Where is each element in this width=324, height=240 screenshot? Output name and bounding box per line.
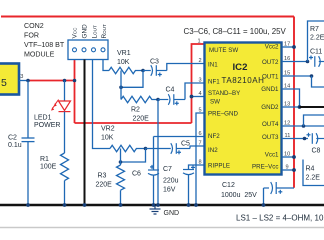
- wire R7 branch up and right: [308, 21, 324, 62]
- svg-text:100E: 100E: [40, 164, 57, 171]
- svg-text:C6: C6: [132, 171, 141, 178]
- svg-text:PRE–Vcc: PRE–Vcc: [252, 164, 278, 171]
- wire red connector Vcc pin down: [74, 60, 76, 81]
- wire pin 14 GND1 down: [282, 89, 300, 107]
- wire IC1 pin3 stub: [19, 80, 29, 82]
- wire R4 leg down right: [303, 160, 324, 186]
- svg-text:C12: C12: [222, 182, 235, 189]
- svg-text:5: 5: [1, 77, 7, 89]
- capacitor C12: [264, 182, 295, 194]
- node bus R2 drop: [156, 203, 160, 207]
- node bus GND wire: [83, 203, 87, 207]
- wire red from node A to connector Vcc column: [28, 81, 75, 124]
- wire C2 to ground bus: [27, 142, 29, 205]
- wire pin 17 Vcc2 to red rail: [282, 46, 294, 48]
- svg-text:CON2: CON2: [24, 22, 44, 30]
- svg-text:220E: 220E: [133, 116, 150, 123]
- ground bus: [0, 204, 324, 206]
- capacitor C11: [309, 56, 324, 67]
- svg-text:IC2: IC2: [233, 62, 248, 73]
- capacitor C3: [143, 65, 167, 76]
- svg-text:6: 6: [199, 131, 202, 137]
- svg-text:LOUT: LOUT: [92, 25, 99, 38]
- wire R2 node to ground bus: [157, 100, 159, 206]
- LED LED1 symbol: [51, 100, 71, 112]
- svg-text:Vcc2: Vcc2: [265, 44, 279, 51]
- node VR2 wiper: [119, 160, 123, 164]
- svg-text:C2: C2: [8, 135, 17, 142]
- wire C6 vertical top: [153, 137, 155, 171]
- svg-text:C11: C11: [310, 49, 322, 56]
- wire VR2 right end to wiper: [121, 149, 146, 163]
- wire C7 to ground bus: [188, 174, 190, 205]
- svg-text:R3: R3: [98, 173, 107, 180]
- wire C5 to pin 7 IN2: [190, 146, 205, 149]
- svg-text:NF1: NF1: [208, 79, 220, 86]
- wire pin 13 GND2: [282, 106, 300, 108]
- ground symbol: [150, 205, 161, 214]
- wire R1 to ground bus: [64, 181, 66, 205]
- svg-text:7: 7: [199, 141, 202, 147]
- wire C12 left to ground bus: [263, 188, 265, 205]
- svg-text:0.1u: 0.1u: [8, 142, 22, 149]
- svg-text:1000u 25V: 1000u 25V: [221, 192, 257, 199]
- svg-text:GND1: GND1: [261, 86, 279, 93]
- node PRE-Vcc on red: [292, 168, 296, 172]
- node bus C7: [187, 203, 191, 207]
- wire LED branch upper: [64, 81, 66, 102]
- resistor R3: [117, 165, 125, 190]
- svg-text:IN2: IN2: [208, 147, 218, 154]
- svg-text:C5: C5: [181, 141, 190, 148]
- svg-text:VTF–108 BT: VTF–108 BT: [24, 41, 65, 49]
- wire C6 to ground bus: [153, 175, 155, 206]
- wire pin 15 OUT1: [282, 75, 312, 77]
- node bus C2: [26, 203, 30, 207]
- capacitor C6: [148, 165, 159, 175]
- node R2 right / C4: [156, 98, 160, 102]
- connector CON2 box: [68, 40, 108, 60]
- svg-text:3: 3: [199, 78, 202, 84]
- svg-text:2.2E: 2.2E: [306, 175, 321, 182]
- svg-text:C3: C3: [150, 59, 159, 66]
- svg-text:VR2: VR2: [101, 126, 115, 133]
- wire OUT1 down right to LS: [312, 76, 324, 87]
- svg-text:TA8210AH: TA8210AH: [222, 76, 265, 85]
- node junction at C2 branch: [26, 79, 30, 83]
- wire Vcc top rail (red): [1, 16, 294, 18]
- resistor R2: [121, 96, 159, 102]
- svg-text:220u: 220u: [163, 178, 179, 185]
- node standby on red: [190, 95, 194, 99]
- svg-text:2: 2: [199, 58, 202, 64]
- IC1 partial yellow box left edge: [0, 64, 19, 95]
- node bus C6: [152, 203, 156, 207]
- wire pin 8 RIPPLE to C7: [189, 165, 205, 170]
- wire Vcc right rail down (red): [293, 17, 295, 188]
- wire Rout pin down to VR1: [103, 60, 109, 71]
- wire red horizontal to IC2 mute: [75, 122, 192, 124]
- svg-text:R7: R7: [310, 26, 319, 33]
- svg-text:4: 4: [199, 91, 202, 97]
- svg-text:OUT4: OUT4: [262, 121, 279, 128]
- wire pin 9 PRE-Vcc to red: [282, 169, 294, 171]
- svg-text:NF2: NF2: [208, 133, 220, 140]
- svg-text:FOR: FOR: [24, 32, 39, 40]
- potentiometer VR2: [110, 145, 146, 151]
- capacitor C4: [158, 94, 185, 105]
- svg-text:OUT1: OUT1: [262, 74, 279, 81]
- node OUT4: [302, 124, 306, 128]
- svg-text:Vcc1: Vcc1: [265, 152, 279, 159]
- svg-text:GND: GND: [164, 210, 180, 217]
- svg-text:16V: 16V: [163, 187, 176, 194]
- node bus pin5: [194, 203, 198, 207]
- svg-text:PRE–GND: PRE–GND: [208, 111, 238, 118]
- wire GND pin down (black): [84, 60, 86, 206]
- svg-text:10K: 10K: [101, 135, 114, 142]
- wire VR1 right end to wiper: [121, 71, 143, 88]
- node pin17 on red rail: [292, 45, 296, 49]
- svg-text:POWER: POWER: [34, 122, 60, 129]
- svg-text:R2: R2: [131, 107, 140, 114]
- svg-text:LED1: LED1: [34, 115, 52, 122]
- node OUT3: [303, 137, 307, 141]
- wire OUT4 up right to LS: [304, 115, 324, 126]
- wire pin 10 Vcc1 to red: [282, 156, 294, 158]
- svg-text:C4: C4: [166, 87, 175, 94]
- wire R3 to ground bus: [120, 190, 122, 205]
- svg-text:OUT2: OUT2: [262, 59, 279, 66]
- op-amp U1 IC2 TA8210AH body: [205, 43, 282, 175]
- wire C4 to pin 3 NF1: [185, 83, 205, 100]
- wire NF2 pin 6 line: [154, 136, 205, 138]
- wire pin 12 OUT4: [282, 125, 324, 127]
- svg-text:MODULE: MODULE: [24, 51, 55, 59]
- svg-text:SW: SW: [210, 99, 220, 106]
- svg-text:2.2E: 2.2E: [310, 35, 324, 42]
- wire LED to R1: [64, 112, 66, 153]
- wire pin 16 OUT2: [282, 61, 308, 63]
- wire red vertical to pin 1: [192, 44, 205, 123]
- svg-text:10K: 10K: [117, 59, 130, 66]
- node bus R1: [63, 203, 67, 207]
- svg-text:R1: R1: [40, 156, 49, 163]
- wire C2 branch down: [27, 81, 29, 139]
- svg-text:MUTE SW: MUTE SW: [209, 47, 238, 54]
- node GND right: [298, 105, 302, 109]
- wire Lout pin down to VR2: [93, 60, 111, 149]
- svg-text:LS1 – LS2 = 4–OHM, 10 W: LS1 – LS2 = 4–OHM, 10 W: [236, 214, 324, 223]
- capacitor C2: [22, 138, 35, 142]
- wire VR2 wiper: [120, 149, 122, 166]
- svg-text:RIPPLE: RIPPLE: [208, 163, 230, 170]
- svg-text:1: 1: [198, 39, 201, 45]
- bottom page divider grey line: [0, 227, 324, 229]
- svg-text:OUT3: OUT3: [262, 134, 279, 141]
- node OUT1: [310, 74, 314, 78]
- resistor R1: [61, 153, 69, 181]
- capacitor C8: [307, 133, 324, 144]
- wire C3 to pin 2 IN1: [167, 64, 205, 71]
- svg-text:8: 8: [199, 160, 202, 166]
- potentiometer VR1: [109, 67, 143, 73]
- svg-text:220E: 220E: [96, 182, 113, 189]
- wire pin 11 OUT3: [282, 138, 308, 140]
- svg-text:GND2: GND2: [261, 104, 279, 111]
- svg-text:ROUT: ROUT: [101, 24, 108, 39]
- node junction at Vcc column: [73, 79, 77, 83]
- node bus R3: [119, 203, 123, 207]
- svg-text:STAND–BY: STAND–BY: [208, 90, 240, 97]
- svg-text:C8: C8: [312, 148, 321, 155]
- svg-text:3: 3: [20, 74, 23, 80]
- svg-text:VCC: VCC: [72, 27, 79, 39]
- node VR1 wiper: [119, 86, 123, 90]
- node VR1 right end: [141, 69, 145, 73]
- wire pin 5 PRE-GND to ground: [196, 113, 205, 205]
- wire GND bus right (black): [300, 106, 324, 108]
- node bus C12: [262, 203, 266, 207]
- svg-text:C3–C6, C8–C11 = 100u, 25V: C3–C6, C8–C11 = 100u, 25V: [184, 27, 287, 36]
- svg-text:IN1: IN1: [208, 62, 218, 69]
- CON2 pin circles: [73, 48, 106, 52]
- capacitor C7: [183, 165, 195, 174]
- svg-text:GND: GND: [82, 24, 89, 39]
- wire VR1 wiper: [120, 71, 122, 100]
- svg-text:R4: R4: [306, 166, 315, 173]
- svg-text:5: 5: [199, 108, 202, 114]
- node OUT2: [306, 60, 310, 64]
- capacitor C5: [146, 143, 191, 154]
- svg-text:VR1: VR1: [117, 50, 131, 57]
- node junction at LED branch: [63, 79, 67, 83]
- wire pin 4 standby to red rail: [192, 96, 205, 98]
- node Vcc1 on red: [292, 155, 296, 159]
- svg-text:C7: C7: [163, 166, 172, 173]
- node VR2 right end: [144, 147, 148, 151]
